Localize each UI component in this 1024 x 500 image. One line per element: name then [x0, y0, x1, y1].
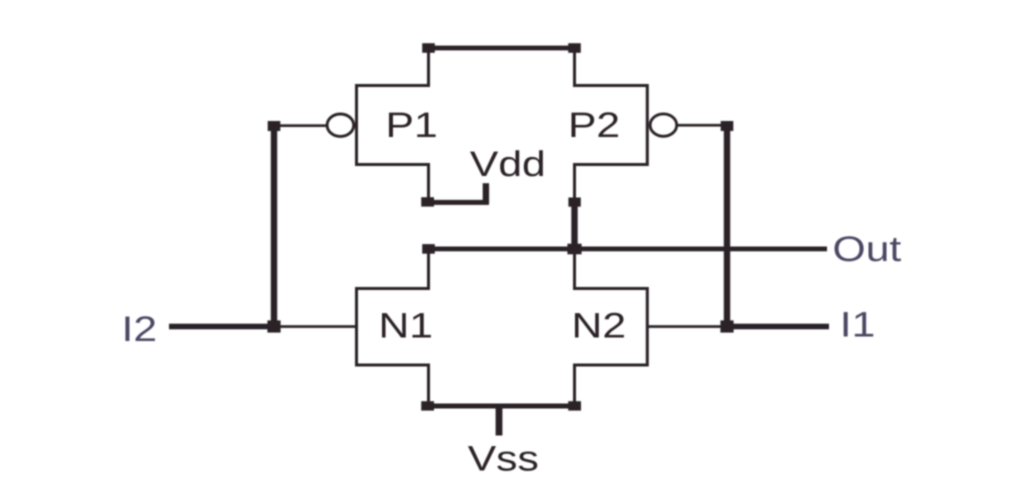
node: junction of I1 wire / right rail / N2 gate [720, 320, 733, 332]
svg-text:P2: P2 [568, 105, 620, 145]
transistor N2 (box outline with drain/source stubs) [575, 249, 648, 406]
node: bottom bus left terminal square [421, 401, 434, 410]
svg-text:N2: N2 [572, 306, 626, 346]
wire: I1 input lead [727, 324, 829, 330]
wire: Vdd connector (thick horizontal from P1 source) [422, 200, 490, 205]
svg-text:I1: I1 [840, 305, 876, 345]
svg-text:Vss: Vss [468, 439, 539, 479]
wire: I2 input lead [169, 324, 274, 330]
svg-text:Out: Out [833, 229, 902, 269]
node: bottom bus right terminal square [568, 401, 581, 410]
wire: N2 gate lead from N2 to junction [646, 325, 722, 328]
label: net Vdd [470, 144, 546, 184]
wire: P2 gate lead from bubble to right rail [676, 124, 723, 127]
wire: top bus connecting P1 drain to P2 drain [426, 46, 577, 51]
wire: N1 gate lead from junction to N1 [277, 325, 357, 328]
transistor P1 (box outline with drain/source stubs) [357, 48, 429, 201]
node: right rail top terminal square [721, 121, 734, 131]
wire: Vdd upward stub [483, 183, 489, 203]
label: transistor P2 [568, 105, 620, 145]
transistor N1 (box outline with drain/source stubs) [357, 249, 429, 406]
node: top bus right terminal square [568, 43, 581, 53]
wire: P1 gate lead from left rail to bubble [278, 124, 327, 127]
node: junction of I2 wire / left rail / N1 gate [267, 320, 280, 332]
wire: bottom bus connecting N1 source to N2 source [424, 404, 578, 409]
wire: left rail thick vertical (I2 to P1 gate) [271, 122, 277, 329]
svg-text:N1: N1 [378, 306, 432, 346]
svg-text:I2: I2 [122, 309, 158, 349]
wire: right rail thick vertical (P2 gate to I1) [724, 122, 730, 329]
label: net Vss [468, 439, 539, 479]
label: transistor P1 [386, 105, 438, 145]
node: square on P2 source vertical [568, 198, 580, 207]
wire: Vss downward stub [496, 406, 503, 436]
label: port I2 [122, 309, 158, 349]
node: square at P1 source / Vdd wire [421, 197, 434, 206]
node: Out line left terminal square [422, 244, 435, 254]
wire: Out horizontal line [424, 247, 827, 252]
gate bubble of P1 [327, 114, 354, 136]
label: transistor N2 [572, 306, 626, 346]
gate bubble of P2 [650, 114, 677, 136]
node: junction of P2 source / N2 drain / Out [567, 244, 581, 255]
wire: P2 source thick vertical down to Out line [571, 200, 577, 251]
node: top bus left terminal square [422, 43, 435, 53]
svg-text:P1: P1 [386, 105, 438, 145]
label: transistor N1 [378, 306, 432, 346]
svg-text:Vdd: Vdd [470, 144, 546, 184]
label: port Out [833, 229, 902, 269]
transistor P2 (box outline with drain/source stubs) [575, 48, 648, 199]
node: left rail top terminal square [268, 121, 281, 131]
label: port I1 [840, 305, 876, 345]
